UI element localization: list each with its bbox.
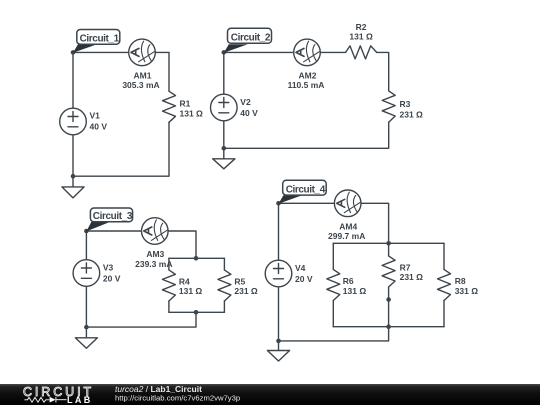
- node C1 bottom: [71, 174, 76, 179]
- svg-text:131 Ω: 131 Ω: [180, 108, 204, 118]
- svg-text:299.7 mA: 299.7 mA: [328, 231, 365, 241]
- resistor R7: [382, 256, 395, 287]
- node C4 top: [276, 201, 281, 206]
- resistor R1: [163, 91, 176, 122]
- ground C1: [62, 176, 84, 198]
- ammeter AM2: [294, 39, 321, 66]
- node C3 rail bottom junction: [194, 310, 199, 315]
- svg-text:231 Ω: 231 Ω: [400, 272, 424, 282]
- svg-text:LAB: LAB: [67, 395, 93, 405]
- svg-text:R8: R8: [455, 276, 466, 286]
- wire top C1 node to AM1: [73, 51, 129, 53]
- wire V2 top: [223, 52, 225, 94]
- resistor R3: [382, 91, 395, 122]
- wire V1 top: [72, 52, 74, 108]
- top rail C3: [169, 257, 225, 259]
- ground C2: [213, 148, 235, 169]
- svg-text:131 Ω: 131 Ω: [179, 286, 203, 296]
- svg-text:R2: R2: [356, 22, 367, 32]
- bottom rail C4: [333, 326, 444, 328]
- node C2 bottom: [222, 146, 227, 151]
- voltage source V2: [211, 94, 238, 121]
- node C3 bottom: [84, 325, 89, 330]
- wire V4 bottom: [278, 287, 280, 341]
- svg-text:131 Ω: 131 Ω: [343, 286, 367, 296]
- wire R7 top stub: [388, 243, 390, 256]
- svg-text:AM3: AM3: [146, 249, 164, 259]
- node C4 top rail junction: [386, 241, 391, 246]
- label flag Circuit_1: [73, 30, 120, 53]
- voltage source V3: [73, 260, 100, 287]
- svg-text:231 Ω: 231 Ω: [400, 110, 424, 120]
- resistor R8: [438, 269, 451, 300]
- wire AM4 to top rail: [361, 203, 389, 243]
- node C2 top: [222, 50, 227, 55]
- svg-text:R3: R3: [400, 99, 411, 109]
- svg-text:331 Ω: 331 Ω: [455, 286, 479, 296]
- resistor R2: [346, 46, 377, 59]
- node C4 bottom rail junction: [386, 324, 391, 329]
- svg-text:AM4: AM4: [339, 221, 357, 231]
- top rail C4: [333, 242, 444, 244]
- svg-text:V4: V4: [295, 263, 306, 273]
- label flag Circuit_2: [224, 28, 272, 53]
- bottom rail C3: [169, 311, 225, 313]
- svg-text:20 V: 20 V: [103, 273, 121, 283]
- wire V1 bottom: [72, 135, 74, 176]
- wire R8 bottom stub: [443, 301, 445, 327]
- wire R1 bottom to bottom rail: [73, 122, 169, 176]
- logo resistor+diode glyph: [24, 397, 66, 403]
- voltage source V1: [60, 108, 87, 135]
- svg-text:Circuit_1: Circuit_1: [80, 34, 120, 45]
- wire R8 top stub: [443, 243, 445, 269]
- svg-text:Circuit_2: Circuit_2: [231, 33, 271, 44]
- node C3 rail top junction: [194, 256, 199, 261]
- wire V4 top: [278, 203, 280, 260]
- ground C4: [267, 341, 289, 361]
- ammeter AM1 letter A: [131, 48, 139, 56]
- node C1 top: [71, 50, 76, 55]
- ammeter AM1: [129, 39, 156, 66]
- ammeter AM4 letter A: [337, 199, 345, 207]
- wire top C4 node to AM4: [279, 202, 335, 204]
- svg-text:R1: R1: [180, 99, 191, 109]
- ammeter AM3: [142, 218, 169, 245]
- wire AM2 to R2: [320, 51, 345, 53]
- wire R5 bottom stub: [223, 301, 225, 312]
- svg-text:V1: V1: [90, 110, 101, 120]
- ammeter AM3 letter A: [144, 227, 152, 235]
- wire V3 bottom: [85, 286, 87, 327]
- svg-text:131 Ω: 131 Ω: [349, 32, 373, 42]
- wire V3 top: [85, 231, 87, 260]
- wire R4 bottom stub: [168, 301, 170, 312]
- ammeter AM4: [334, 190, 361, 217]
- svg-text:40 V: 40 V: [240, 108, 258, 118]
- svg-text:AM1: AM1: [134, 70, 152, 80]
- resistor R6: [327, 269, 340, 300]
- wire R7 bottom stub: [388, 287, 390, 327]
- svg-text:239.3 mA: 239.3 mA: [135, 259, 172, 269]
- ammeter letter A marks (rotated): [131, 48, 345, 235]
- svg-text:20 V: 20 V: [295, 274, 313, 284]
- svg-text:V2: V2: [240, 97, 251, 107]
- wire R2 to R3 corner: [377, 52, 389, 91]
- node C4 R7 bottom terminal: [386, 297, 391, 302]
- wire AM3 to top rail: [168, 231, 196, 258]
- wire V2 bottom: [223, 121, 225, 149]
- svg-text:http://circuitlab.com/c7v6zm2v: http://circuitlab.com/c7v6zm2vw7y3p: [115, 394, 240, 403]
- wire C4 rail to bottom wire: [279, 327, 389, 341]
- ground C3: [75, 327, 97, 348]
- svg-text:V3: V3: [103, 262, 114, 272]
- svg-text:231 Ω: 231 Ω: [234, 286, 258, 296]
- wire C3 rail to bottom wire: [86, 312, 196, 327]
- wire AM1 to R1 corner: [155, 52, 169, 91]
- wire R6 top stub: [332, 243, 334, 269]
- svg-text:AM2: AM2: [299, 70, 317, 80]
- wire top C3 node to AM3: [86, 230, 141, 232]
- wire R6 bottom stub: [332, 301, 334, 327]
- svg-text:R6: R6: [343, 276, 354, 286]
- label flag Circuit_3: [86, 208, 132, 231]
- voltage source V4: [265, 260, 292, 287]
- svg-text:40 V: 40 V: [90, 121, 108, 131]
- ammeter AM2 letter A: [296, 48, 304, 56]
- svg-text:305.3 mA: 305.3 mA: [122, 80, 159, 90]
- node C3 top: [84, 229, 89, 234]
- resistor R4: [162, 270, 175, 301]
- svg-text:Circuit_4: Circuit_4: [286, 184, 326, 195]
- node C4 bottom: [276, 339, 281, 344]
- wire R3 bottom to bottom rail: [224, 122, 389, 148]
- wire R4 top stub: [168, 258, 170, 270]
- svg-text:Circuit_3: Circuit_3: [93, 211, 133, 222]
- resistor R5: [218, 270, 231, 301]
- label flag Circuit_4: [279, 180, 327, 204]
- svg-text:R7: R7: [400, 262, 411, 272]
- wire R5 top stub: [223, 258, 225, 270]
- wire top C2 node to AM2: [224, 51, 294, 53]
- svg-text:110.5 mA: 110.5 mA: [288, 80, 325, 90]
